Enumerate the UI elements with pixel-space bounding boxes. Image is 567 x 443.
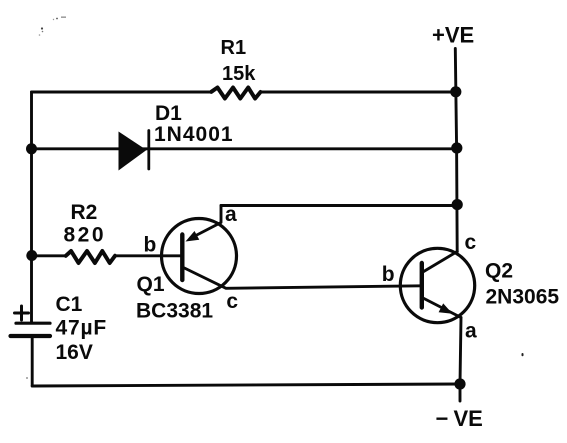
svg-text:VE: VE — [454, 406, 483, 431]
svg-text:1N4001: 1N4001 — [154, 123, 234, 146]
svg-text:+VE: +VE — [432, 23, 474, 48]
svg-text:47µF: 47µF — [56, 317, 108, 340]
svg-text:a: a — [225, 203, 237, 226]
svg-text:R1: R1 — [221, 37, 247, 59]
svg-text:2N3065: 2N3065 — [486, 286, 560, 309]
svg-text:Q2: Q2 — [485, 260, 513, 283]
svg-text:b: b — [144, 234, 157, 257]
svg-text:16V: 16V — [56, 341, 93, 364]
svg-text:D1: D1 — [155, 102, 182, 125]
svg-text:c: c — [465, 231, 477, 254]
svg-text:b: b — [382, 263, 395, 286]
svg-text:R2: R2 — [71, 201, 98, 224]
svg-text:a: a — [465, 320, 477, 343]
svg-text:Q1: Q1 — [137, 273, 165, 296]
svg-text:15k: 15k — [222, 63, 256, 85]
svg-text:−: − — [436, 406, 449, 431]
svg-text:c: c — [226, 290, 238, 313]
svg-text:BC3381: BC3381 — [136, 300, 213, 323]
svg-text:C1: C1 — [56, 293, 83, 316]
svg-text:820: 820 — [64, 224, 107, 247]
